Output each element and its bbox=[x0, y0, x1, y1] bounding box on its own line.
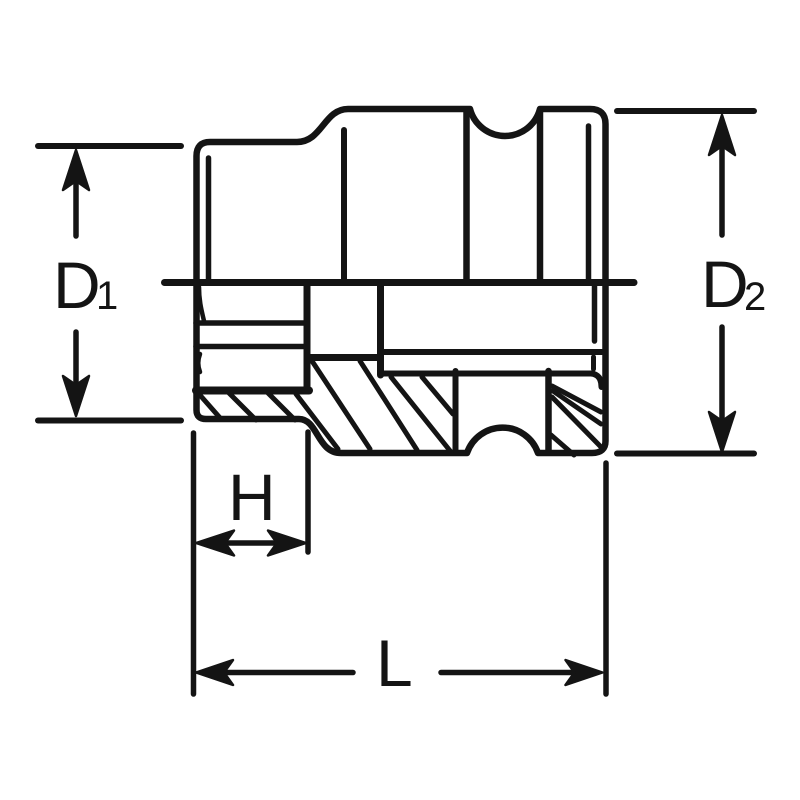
D1 arrowhead down bbox=[63, 376, 89, 416]
hatch left band stroke 3 bbox=[267, 392, 295, 420]
drive chamfer line upper bbox=[199, 287, 204, 321]
socket body outer profile bbox=[197, 109, 606, 453]
H arrowhead left bbox=[196, 531, 234, 556]
H arrow shaft bbox=[222, 540, 280, 546]
L right arrow shaft bbox=[441, 670, 578, 676]
hatch middle stroke 2 bbox=[312, 361, 370, 449]
bore corner arc right bbox=[591, 374, 602, 388]
drive box right vertical bbox=[304, 284, 311, 391]
svg-text:D: D bbox=[53, 248, 101, 322]
D2 arrowhead down bbox=[709, 412, 735, 452]
notch left vertical bbox=[463, 111, 470, 280]
L arrowhead left bbox=[196, 660, 233, 685]
D1 lower arrow shaft bbox=[73, 332, 79, 390]
D2 upper arrow shaft bbox=[719, 143, 725, 235]
L arrowhead right bbox=[566, 660, 603, 685]
inner vertical line left (upper) bbox=[206, 158, 212, 280]
notch right vertical bbox=[537, 111, 544, 280]
bore left vertical bbox=[453, 371, 459, 451]
drive box bottom thick line C bbox=[196, 387, 309, 395]
svg-text:H: H bbox=[228, 460, 276, 534]
hatch left band stroke 1 bbox=[199, 394, 221, 419]
right hatch region left vertical bbox=[545, 371, 552, 452]
mid flange line bbox=[165, 279, 635, 286]
hatch right stroke 3 bbox=[552, 397, 602, 448]
hatch right stroke 2 bbox=[553, 391, 601, 424]
socket bore upper line bbox=[382, 349, 602, 355]
square hole bottom thick line bbox=[310, 354, 378, 361]
hatch right stroke 4 bbox=[551, 435, 574, 455]
short tick right bbox=[591, 357, 596, 369]
D2 top extent line bbox=[617, 108, 754, 114]
D1 arrowhead up bbox=[63, 150, 89, 190]
hatch middle stroke 3 bbox=[360, 361, 417, 450]
D1 upper arrow shaft bbox=[73, 178, 79, 236]
hatch right stroke 1 bbox=[552, 386, 601, 412]
svg-text:1: 1 bbox=[96, 274, 118, 318]
D2 lower arrow shaft bbox=[719, 327, 725, 425]
H right extension line bbox=[305, 432, 311, 552]
drive box line A bbox=[196, 320, 304, 326]
H arrowhead right bbox=[268, 531, 306, 556]
svg-text:2: 2 bbox=[744, 275, 766, 319]
L left arrow shaft bbox=[222, 670, 353, 676]
label D2 bbox=[701, 247, 766, 321]
svg-text:L: L bbox=[376, 626, 413, 700]
inner vertical line at step (upper) bbox=[341, 130, 347, 280]
L right extension line bbox=[603, 463, 609, 694]
D2 arrowhead up bbox=[709, 115, 735, 155]
D2 bottom extent line bbox=[617, 451, 754, 457]
inner vertical near right edge lower bbox=[592, 282, 598, 341]
label D1 bbox=[53, 248, 118, 322]
D1 top extent line bbox=[38, 143, 181, 149]
hatch middle stroke 1 bbox=[296, 394, 338, 449]
inner vertical near right edge upper bbox=[586, 126, 592, 282]
hatch left band stroke 2 bbox=[228, 392, 256, 420]
H left extension line (shared with L) bbox=[191, 433, 197, 694]
hatch middle stroke 4 bbox=[391, 377, 451, 452]
socket bore lower line bbox=[382, 371, 593, 377]
drive box line B bbox=[196, 344, 304, 350]
hatch middle stroke 5 bbox=[422, 377, 453, 414]
square hole right vertical bbox=[377, 284, 384, 375]
svg-text:D: D bbox=[701, 247, 749, 321]
D1 bottom extent line bbox=[38, 418, 181, 424]
drive chamfer arc lower bbox=[198, 354, 200, 372]
